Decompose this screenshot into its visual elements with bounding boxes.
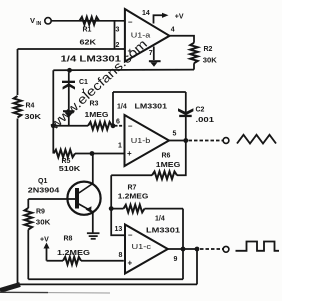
wire ground bus (53, 69, 194, 72)
svg-text:LM3301: LM3301 (146, 226, 180, 235)
wire U1-c output (168, 248, 197, 250)
svg-text:.001: .001 (196, 117, 215, 124)
transistor Q1 collector lead (79, 184, 93, 194)
svg-text:14: 14 (142, 10, 150, 17)
node VIN terminal (45, 18, 51, 24)
op-amp U1-c (125, 225, 168, 274)
transistor Q1 emitter lead (79, 204, 93, 212)
wire R8 (47, 260, 124, 262)
transistor Q1 circle (67, 182, 100, 215)
svg-text:+V: +V (175, 14, 184, 21)
wire Q1 collector (92, 154, 94, 184)
wire feedback to U1-a plus input (18, 48, 125, 50)
svg-text:U1-b: U1-b (131, 138, 151, 145)
node U1-b output junction (183, 138, 188, 143)
wire R7 right feedback column (182, 209, 184, 280)
wire dashes to triangle terminal (189, 140, 223, 142)
svg-text:R7: R7 (128, 185, 137, 192)
svg-text:1MEG: 1MEG (85, 112, 110, 119)
wire pin6 dashes (115, 125, 125, 127)
wire outer bottom (18, 283, 198, 285)
svg-text:U1-a: U1-a (131, 32, 151, 39)
resistor R6 (152, 172, 177, 180)
svg-text:62K: 62K (80, 40, 97, 47)
svg-text:C2: C2 (196, 107, 205, 114)
svg-text:1: 1 (82, 88, 86, 95)
svg-text:2N3904: 2N3904 (28, 187, 60, 194)
svg-text:1MEG: 1MEG (156, 162, 181, 169)
svg-text:30K: 30K (203, 58, 217, 65)
svg-text:LM3301: LM3301 (135, 102, 168, 111)
square waveform symbol (236, 242, 280, 251)
wire R6 feedback (111, 141, 186, 176)
resistor R3 (88, 122, 112, 130)
ground pin7 symbol (149, 60, 161, 67)
node outer feedback junction (195, 247, 200, 252)
svg-text:R2: R2 (204, 46, 213, 53)
wire U1-b output (169, 140, 186, 142)
wire R9 column (27, 199, 29, 279)
wire dashes to square terminal (200, 248, 223, 250)
svg-text:Q1: Q1 (38, 178, 47, 185)
ground pin7 stem (153, 47, 155, 61)
svg-text:3: 3 (116, 27, 120, 34)
capacitor C2 (178, 108, 193, 117)
node output feedback junction (181, 247, 186, 252)
resistor R1 (80, 17, 100, 25)
svg-text:R3: R3 (90, 101, 99, 108)
capacitor C1 (62, 81, 75, 90)
wire R3 (53, 125, 113, 127)
svg-text:1/4: 1/4 (155, 216, 165, 223)
resistor R7 (124, 205, 145, 213)
wire +V arrow stem bottom (46, 248, 48, 261)
svg-text:4: 4 (171, 27, 175, 34)
wire vertical x53 (52, 70, 54, 153)
transistor Q1 emitter arrowhead (86, 206, 92, 212)
wire U1-a output to R2 (170, 36, 195, 43)
svg-text:–: – (128, 231, 133, 240)
svg-text:510K: 510K (59, 166, 81, 173)
node C1 top junction (67, 68, 72, 73)
svg-text:1/4: 1/4 (117, 104, 127, 111)
node R3 left junction (51, 123, 56, 128)
svg-text:1/4 LM3301: 1/4 LM3301 (61, 55, 122, 64)
svg-text:6: 6 (116, 119, 120, 126)
svg-text:+: + (127, 149, 132, 158)
svg-text:R1: R1 (83, 27, 92, 34)
wire square feedback line1 (28, 278, 183, 280)
pin 14 lead and +V arrow (154, 15, 163, 23)
svg-text:2: 2 (116, 42, 120, 49)
transistor Q1 base bar (75, 188, 79, 209)
wire U1-b box left edge (112, 92, 114, 126)
wire R6 left to pin13 column (111, 175, 125, 235)
svg-text:7: 7 (149, 50, 153, 57)
node triangle output terminal (223, 138, 229, 144)
node R7 junction (109, 206, 114, 211)
triangle waveform symbol (237, 135, 276, 144)
svg-text:C1: C1 (79, 79, 88, 86)
wire R2 bottom to ground bus (193, 63, 195, 69)
scan artifact bottom line (0, 291, 48, 293)
+V arrow bottom (R8 supply) (44, 243, 50, 249)
svg-text:R5: R5 (62, 158, 71, 165)
scan artifact bottom-left diagonal (0, 285, 20, 291)
wire pin box U1-a left edge (114, 21, 116, 49)
svg-text:5: 5 (173, 131, 177, 138)
svg-text:9: 9 (174, 256, 178, 263)
resistor R4 (14, 96, 22, 118)
svg-text:R6: R6 (162, 153, 171, 160)
svg-text:+: + (128, 259, 133, 268)
resistor R9 (25, 208, 33, 230)
wire C2 column (185, 92, 187, 141)
resistor R8 (63, 257, 81, 265)
wire U1-b box top (113, 91, 186, 93)
wire Q1 base (28, 198, 75, 200)
svg-text:IN: IN (36, 21, 41, 27)
op-amp U1-a (125, 9, 170, 62)
wire VIN to R1 to box (52, 20, 125, 22)
ground Q1 emitter symbol (87, 233, 100, 239)
wire R7 (111, 208, 183, 210)
node pin6 junction (111, 123, 116, 128)
node square output terminal (223, 246, 229, 252)
svg-text:1.2MEG: 1.2MEG (57, 250, 91, 257)
svg-text:V: V (30, 16, 35, 25)
ground arrow below C1 (63, 110, 75, 117)
svg-text:–: – (128, 18, 133, 27)
svg-text:+V: +V (40, 236, 49, 243)
svg-text:13: 13 (115, 226, 123, 233)
watermark www.elecfans.com (46, 36, 150, 133)
wire outer right (196, 249, 198, 284)
resistor R2 (190, 43, 198, 63)
wire left border (17, 49, 19, 284)
svg-text:–: – (128, 122, 133, 131)
node collector junction (90, 151, 95, 156)
resistor R5 (54, 150, 76, 158)
svg-text:R4: R4 (26, 103, 35, 110)
svg-text:U1-c: U1-c (132, 244, 152, 251)
wire Q1 emitter to ground (92, 212, 94, 233)
op-amp U1-b (125, 115, 170, 166)
capacitor C1 leads (68, 73, 70, 126)
svg-text:R8: R8 (64, 236, 73, 243)
svg-text:1.2MEG: 1.2MEG (118, 194, 149, 201)
svg-text:R9: R9 (36, 209, 45, 216)
svg-text:1: 1 (118, 143, 122, 150)
svg-text:30K: 30K (36, 220, 51, 227)
svg-text:8: 8 (119, 252, 123, 259)
svg-text:+: + (128, 47, 133, 56)
svg-text:30K: 30K (25, 114, 42, 121)
wire R5 / pin 1 (75, 153, 125, 155)
